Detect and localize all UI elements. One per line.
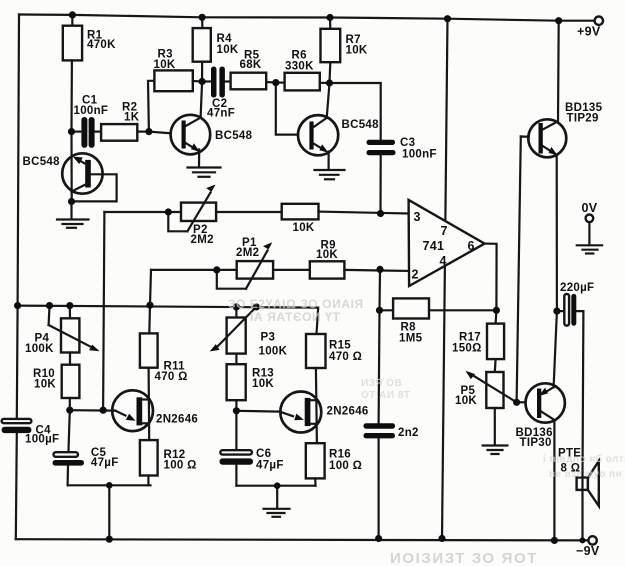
svg-text:ЗО Е2ҮАІΩ ЗО ОИАІЯ: ЗО Е2ҮАІΩ ЗО ОИАІЯ [228,297,364,311]
junction: -9V rail taps [106,535,586,544]
svg-text:100µF: 100µF [25,434,59,446]
junction: C6 link ground tap [274,482,281,489]
show-through artifacts (decorative) [228,297,625,566]
resistor R6 [276,50,330,91]
capacitor C5 [53,410,119,485]
svg-text:100 Ω: 100 Ω [329,460,362,472]
svg-text:ве азе муо пн вєлт: ве азе муо пн вєлт [549,469,625,480]
wire: bottom -9V rail [16,539,589,540]
ground (0V) [577,245,602,253]
junction: node B (R2/R3/Q2 base) [145,128,152,135]
svg-text:470 Ω: 470 Ω [329,351,362,363]
svg-text:10K: 10K [293,222,315,234]
node +9V terminal [577,17,603,39]
ground (C6/R16 node) [264,486,290,517]
resistor R7 [321,18,368,84]
svg-text:ИОІЗИЗТ ЗО ЯОТ: ИОІЗИЗТ ЗО ЯОТ [390,550,538,566]
resistor R16 [306,443,362,486]
svg-text:TIP30: TIP30 [520,437,552,449]
svg-text:220µF: 220µF [560,282,594,294]
wire: P1 left to bus and R11 top [149,270,151,334]
svg-text:10K: 10K [34,378,56,390]
potentiometer P2 2M2 [104,185,281,246]
resistor R13 [227,354,275,411]
svg-text:2N2646: 2N2646 [327,406,369,418]
svg-text:BC548: BC548 [23,156,61,168]
junction: P1 wiper tie [213,266,220,273]
svg-text:2M2: 2M2 [191,234,214,246]
capacitor 220uF [557,282,594,477]
svg-text:1K: 1K [124,111,140,123]
svg-text:C6: C6 [256,448,271,460]
junction: C3 to pin3 wire [377,210,384,217]
junction: Q1 emitter/loop [68,198,75,205]
svg-text:−9V: −9V [576,544,600,558]
junction: 2n2 to pin2 wire [376,266,383,273]
junction: node D (R5/R6/Q3 base) [272,79,279,86]
resistor R3 [148,49,202,132]
wire: R10/C5 node to UJT Q4 emitter [70,409,115,412]
svg-text:10K: 10K [154,59,176,71]
junction: C5 link to rail [106,482,113,489]
wire: top +9V rail [19,15,595,21]
capacitor C4 [2,419,60,446]
potentiometer P4 100K [25,306,100,355]
speaker PTE 8 ohm [558,448,599,541]
wire: Q3 collector node to C3 [330,83,381,139]
resistor R15 [306,334,362,443]
wire: P2 tap down to UJT Q4 emitter node [103,212,104,410]
ground (Q2 emitter) [188,168,221,177]
svg-text:ОТ АИ 8Т: ОТ АИ 8Т [361,390,411,401]
wire: BD135/BD136 base column [517,137,521,403]
svg-text:R16: R16 [329,449,351,461]
wire: left vertical +9V feed [17,15,19,419]
transistor Q5 2N2646 [280,392,369,433]
svg-text:2n2: 2n2 [398,427,419,439]
svg-text:10K: 10K [346,44,368,56]
svg-text:100K: 100K [259,345,288,357]
svg-text:330K: 330K [285,60,314,72]
resistor R4 [193,17,239,81]
svg-text:1M5: 1M5 [399,332,423,344]
ground (Q3 emitter) [315,170,345,179]
junction: 741 output node [493,307,500,314]
resistor 10K (summing) [282,204,409,234]
transistor Q6 BD135 TIP29 [521,21,603,311]
transistor Q7 BD136 TIP30 [516,311,565,540]
ground (Q1 emitter) [57,202,89,228]
resistor R1 [63,15,116,132]
svg-text:741: 741 [423,239,445,253]
transistor Q3 BC548 [276,83,379,170]
svg-text:47µF: 47µF [91,457,119,469]
svg-text:BC548: BC548 [342,119,380,131]
svg-text:TIP29: TIP29 [567,113,599,125]
wire: 741 output pin 6 [485,244,497,311]
resistor R8 [380,298,497,344]
junction: bus taps [14,302,260,311]
wire: C6/R16 bottom link [236,485,315,487]
svg-text:і вівдпо яб олтєм: і вівдпо яб олтєм [543,453,625,465]
svg-text:100nF: 100nF [74,105,109,117]
junction: R13/C6 node [233,407,240,414]
svg-text:0V: 0V [582,201,598,215]
junction: node A (R1/C1/Q1 collector) [68,128,75,135]
junction: R8 left / 2n2 column [376,307,383,314]
svg-text:7: 7 [441,224,448,238]
svg-text:3: 3 [414,210,421,224]
resistor R10 [33,353,79,411]
svg-text:68K: 68K [240,59,262,71]
junction: P5 wiper / BD base node [513,399,520,406]
node 0V terminal [582,201,598,245]
junction: R10/C5/P2 tap node [66,407,106,414]
svg-text:100K: 100K [25,343,54,355]
svg-text:10K: 10K [252,378,274,390]
svg-text:R15: R15 [329,340,351,352]
resistor R9 [273,239,409,278]
potentiometer P1 2M2 [151,237,273,289]
svg-text:470 Ω: 470 Ω [155,371,188,383]
wire: C5/R12 bottom link to -9V rail [68,485,151,539]
op-amp U1 741 [409,200,485,286]
transistor Q1 BC548 [23,132,103,202]
svg-text:100nF: 100nF [402,148,437,160]
svg-text:+9V: +9V [577,24,601,38]
resistor R5 [231,50,276,90]
svg-text:ИЗЯ ОВ: ИЗЯ ОВ [361,378,402,389]
potentiometer P5 10K [455,359,517,445]
resistor R11 [140,333,188,440]
capacitor C2 [202,67,235,120]
wire: 741 supply column pin7-pin4 [442,19,448,539]
ground (P5) [483,446,508,455]
svg-text:2N2646: 2N2646 [156,414,198,426]
svg-text:2: 2 [412,268,419,282]
junction: emitters / 220uF node [553,308,560,315]
resistor R17 [452,310,504,359]
svg-text:10K: 10K [217,44,239,56]
capacitor C1 [72,94,109,148]
transistor Q2 BC548 [149,82,253,168]
resistor R12 [140,440,197,485]
capacitor C6 [220,411,284,486]
svg-text:2M2: 2M2 [236,247,259,259]
wire: R13/C6 node to UJT Q5 emitter [236,410,279,413]
wire: Q1 base feedback loop [72,174,117,201]
svg-text:470K: 470K [87,39,116,51]
svg-text:C3: C3 [400,137,415,149]
junction: P2 wiper tie [165,208,172,215]
capacitor C3 [367,137,437,213]
svg-text:P3: P3 [261,332,276,344]
transistor Q4 2N2646 [112,390,198,431]
svg-text:ІА ЯАТЄОИ ҮТ: ІА ЯАТЄОИ ҮТ [250,310,340,324]
svg-text:47µF: 47µF [256,459,284,471]
svg-text:BC548: BC548 [215,130,253,142]
svg-text:4: 4 [440,254,447,268]
capacitor 2n2 [364,269,419,538]
svg-text:150Ω: 150Ω [452,343,482,355]
svg-text:R17: R17 [459,331,481,343]
svg-text:10K: 10K [316,249,338,261]
svg-text:100 Ω: 100 Ω [164,459,197,471]
svg-text:6: 6 [468,239,475,253]
node -9V terminal [576,536,600,558]
svg-text:47nF: 47nF [207,108,235,120]
junction: node E (R6/R7/Q3 collector/C3) [326,79,333,86]
junction: +9V rail taps [69,11,563,24]
svg-text:10K: 10K [455,395,477,407]
potentiometer P3 100K [210,307,288,358]
resistor R2 [101,102,149,141]
junction: node C (R4/R3/C2/Q2 collector) [199,78,206,85]
wire: +9V bus of oscillator section [18,306,319,334]
